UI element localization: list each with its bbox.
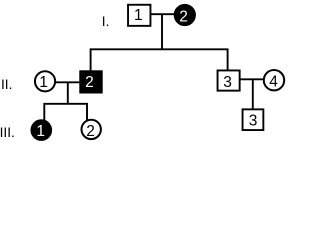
svg-text:3: 3 <box>249 112 258 129</box>
svg-text:1: 1 <box>134 7 143 24</box>
svg-text:2: 2 <box>85 74 94 91</box>
svg-text:1: 1 <box>36 123 45 140</box>
wire: marriage line II-3 to II-4 <box>240 78 264 80</box>
svg-text:1: 1 <box>39 74 48 91</box>
wire: generation III sibship line with drops to III-1 and III-2 <box>44 104 87 121</box>
svg-text:4: 4 <box>269 74 278 91</box>
svg-text:2: 2 <box>86 123 95 140</box>
individual III-3: unaffected male square <box>243 109 264 130</box>
wire: generation II sibship line with drops to II-2 and II-3 <box>91 49 228 71</box>
svg-text:2: 2 <box>179 8 188 25</box>
wire: marriage line II-1 to II-2 <box>55 81 81 83</box>
svg-text:I.: I. <box>102 14 110 29</box>
wire: marriage line I-1 to I-2 <box>150 13 176 15</box>
svg-text:III.: III. <box>0 125 15 140</box>
individual III-1: affected female filled circle <box>32 120 52 140</box>
svg-text:3: 3 <box>223 74 232 91</box>
wire: descent line from couple I to generation II sibship line <box>161 14 163 49</box>
wire: descent line from couple II-1/II-2 to generation III sibship line <box>67 82 69 104</box>
individual II-3: unaffected male square <box>218 70 240 90</box>
individual II-1: unaffected female circle <box>35 71 55 91</box>
svg-text:II.: II. <box>1 77 12 92</box>
wire: descent line from couple II-3/II-4 to III-3 <box>252 79 254 110</box>
individual I-2: affected female filled circle <box>175 5 195 25</box>
individual II-2: affected male filled square <box>80 71 102 92</box>
individual II-4: unaffected female circle <box>264 70 284 90</box>
individual I-1: unaffected male square <box>128 5 150 26</box>
individual III-2: unaffected female circle <box>82 120 101 139</box>
